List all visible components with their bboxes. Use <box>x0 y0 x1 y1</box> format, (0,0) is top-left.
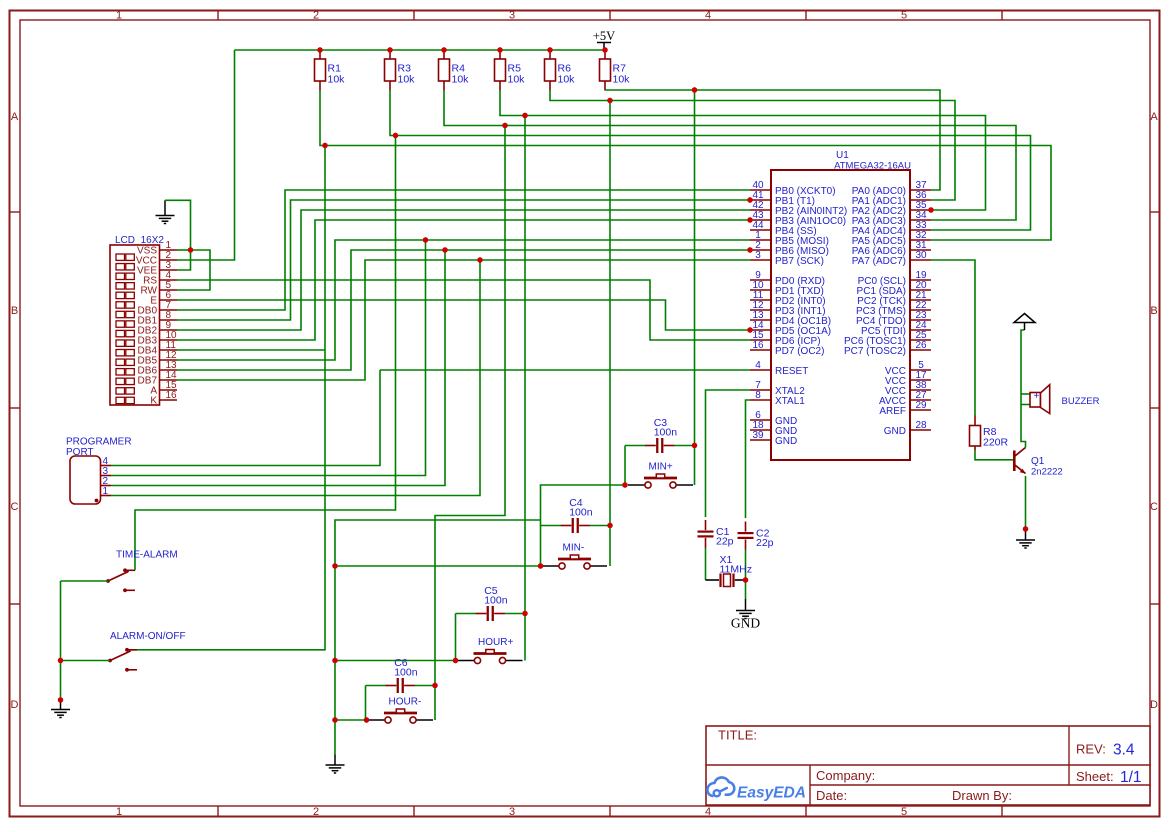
svg-text:10k: 10k <box>328 74 346 86</box>
junction emitter/ground <box>1023 526 1028 531</box>
push button MIN+ <box>628 462 693 489</box>
LCD pin 11 DB4 <box>138 340 177 357</box>
junction C3 right <box>692 443 697 448</box>
svg-text:100n: 100n <box>484 595 508 607</box>
wire R1 net: descender to ALARM-ON/OFF <box>131 146 326 650</box>
wire button common row MIN- <box>335 565 541 567</box>
wire RS to PD6 <box>177 280 750 340</box>
svg-text:K: K <box>150 396 157 407</box>
port pin 4 <box>101 456 112 467</box>
U1 pin 17 VCC <box>885 370 931 387</box>
svg-text:AREF: AREF <box>879 406 906 417</box>
U1 pin 12 PD3 (INT1) <box>750 300 826 317</box>
svg-text:D: D <box>1150 699 1158 711</box>
U1 pin 28 GND <box>884 420 931 437</box>
U1 pin 5 VCC <box>885 360 931 377</box>
LCD pad <box>116 321 125 327</box>
junction common/MIN- <box>332 563 337 568</box>
svg-text:GND: GND <box>775 436 797 447</box>
wire DB4 <box>177 349 325 351</box>
junction R1 bus <box>322 143 327 148</box>
port pin 1 <box>101 486 112 497</box>
svg-text:10k: 10k <box>452 74 470 86</box>
U1 pin 3 PB7 (SCK) <box>750 250 824 267</box>
push button MIN- <box>542 543 607 570</box>
U1 pin 37 PA0 (ADC0) <box>852 180 931 197</box>
junction R4 bus <box>502 123 507 128</box>
svg-text:EasyEDA: EasyEDA <box>737 785 806 802</box>
svg-text:2: 2 <box>313 806 319 818</box>
connector LCD_16X2 <box>110 235 164 405</box>
junction on +5V bus <box>387 47 392 52</box>
svg-text:D: D <box>11 699 19 711</box>
U1 pin 14 PD5 (OC1A) <box>750 320 831 337</box>
junction common/HOUR- <box>332 717 337 722</box>
resistor R1 <box>315 50 346 91</box>
junction VSS <box>188 247 193 252</box>
ground (switches) <box>51 700 70 718</box>
svg-text:PA7 (ADC7): PA7 (ADC7) <box>852 256 906 267</box>
junction C6 left/HOUR- <box>364 717 369 722</box>
svg-text:C: C <box>11 501 19 513</box>
svg-text:4: 4 <box>705 806 711 818</box>
LCD pin 9 DB2 <box>138 320 177 337</box>
LCD pin 6 E <box>150 290 177 307</box>
LCD pin 10 DB3 <box>138 330 178 347</box>
wire XTAL1 to C2 <box>746 400 751 518</box>
junction at U1 left pin <box>747 217 752 222</box>
port pin 3 <box>101 466 112 477</box>
LCD pin 8 DB1 <box>138 310 177 327</box>
capacitor C5 100n <box>476 585 508 621</box>
svg-text:PROGRAMER: PROGRAMER <box>66 437 132 448</box>
svg-text:Drawn By:: Drawn By: <box>952 788 1012 803</box>
svg-text:3: 3 <box>509 806 515 818</box>
svg-text:ATMEGA32-16AU: ATMEGA32-16AU <box>834 161 911 172</box>
LCD pin 7 DB0 <box>138 300 177 317</box>
LCD pad <box>116 359 125 365</box>
connector PROGRAMER PORT <box>66 437 132 505</box>
junction on +5V bus <box>602 47 607 52</box>
junction at U1 left pin <box>747 247 752 252</box>
LCD pin 2 VCC <box>136 250 177 267</box>
U1 pin 13 PD4 (OC1B) <box>750 310 831 327</box>
wire DB0 to PB0 <box>177 190 750 310</box>
junction dots overlay <box>58 47 1028 722</box>
U1 pin 15 PD6 (ICP) <box>750 330 821 347</box>
svg-text:1/1: 1/1 <box>1120 769 1142 786</box>
wire VCC riser to LCD <box>177 50 235 260</box>
svg-text:30: 30 <box>915 250 927 261</box>
wire button common vertical <box>335 520 541 755</box>
svg-text:3: 3 <box>755 250 761 261</box>
svg-text:2: 2 <box>313 10 319 22</box>
wire R1 net: PA5 bus <box>320 91 1051 241</box>
wire R3 net: descender to TIME-ALARM <box>135 136 396 571</box>
svg-text:B: B <box>1150 305 1157 317</box>
LCD pin 4 RS <box>143 270 177 287</box>
U1 pin 30 PA7 (ADC7) <box>852 250 931 267</box>
U1 pin 31 PA6 (ADC6) <box>852 240 931 257</box>
wire port pin2 to PB6 <box>111 250 445 486</box>
LCD pin 1 VSS <box>137 240 177 257</box>
svg-text:+: + <box>1034 391 1040 402</box>
wire DB6 to PB6 <box>177 250 750 370</box>
U1 pin 40 PB0 (XCKT0) <box>750 180 836 197</box>
svg-text:REV:: REV: <box>1076 742 1106 757</box>
wire VEE to ground net <box>177 250 191 270</box>
svg-text:4: 4 <box>705 10 711 22</box>
LCD pad <box>116 292 125 298</box>
capacitor C4 100n <box>561 497 593 533</box>
resistor R8 220R <box>970 416 1009 451</box>
U1 pin 10 PD1 (TXD) <box>750 280 824 297</box>
capacitor C6 100n <box>386 657 418 693</box>
LCD pad <box>116 283 125 289</box>
transistor Q1 2n2222 <box>1014 448 1062 478</box>
U1 pin 25 PC6 (TOSC1) <box>844 330 931 347</box>
wire E to PD5 <box>177 300 750 330</box>
svg-text:TITLE:: TITLE: <box>718 728 757 743</box>
junction MIN+ left <box>622 482 627 487</box>
LCD pin 13 DB6 <box>138 360 178 377</box>
U1 pin 9 PD0 (RXD) <box>750 270 825 287</box>
svg-text:28: 28 <box>915 420 927 431</box>
junction at U1 pin 35 <box>928 207 933 212</box>
U1 pin 38 VCC <box>885 380 931 397</box>
U1 pin 42 PB2 (AIN0INT2) <box>750 200 847 217</box>
LCD pad <box>116 311 125 317</box>
wire port pin3 to PB5 <box>111 240 426 476</box>
LCD pad <box>116 369 125 375</box>
wire RESET row <box>380 369 750 371</box>
LCD pin 3 VEE <box>137 260 177 277</box>
svg-text:8: 8 <box>755 390 761 401</box>
junction R5 bus <box>522 113 527 118</box>
U1 pin 20 PC1 (SDA) <box>857 280 931 297</box>
wire R4 net: PA3 bus <box>444 91 1016 221</box>
svg-text:29: 29 <box>915 400 927 411</box>
U1 pin 39 GND <box>750 430 797 447</box>
junction R3 bus <box>393 133 398 138</box>
wire DB7 to PB7 <box>177 260 750 380</box>
wire DB3 to PB3 <box>177 220 750 340</box>
junction X1 right <box>743 577 748 582</box>
wire R3 net: PA4 bus <box>390 91 1031 231</box>
svg-text:B: B <box>11 305 18 317</box>
U1 pin 4 RESET <box>750 360 808 377</box>
U1 pin 8 XTAL1 <box>750 390 805 407</box>
wire PA7 to R8 <box>931 260 975 416</box>
U1 pin 24 PC5 (TDI) <box>861 320 931 337</box>
U1 pin 34 PA3 (ADC3) <box>852 210 931 227</box>
LCD pad <box>116 350 125 356</box>
svg-text:22p: 22p <box>716 536 734 548</box>
svg-text:A: A <box>11 111 19 123</box>
junction on +5V bus <box>497 47 502 52</box>
ground (Q1 emitter) <box>1016 529 1035 548</box>
crystal X1 11MHz <box>720 554 752 587</box>
svg-text:ALARM-ON/OFF: ALARM-ON/OFF <box>110 631 186 642</box>
LCD pin 5 RW <box>141 280 177 297</box>
junction R6 bus <box>607 98 612 103</box>
svg-text:RESET: RESET <box>775 366 808 377</box>
wire ALARM-ON/OFF common <box>61 660 111 662</box>
svg-text:220R: 220R <box>983 437 1009 449</box>
junction C4 right <box>607 523 612 528</box>
svg-text:10k: 10k <box>613 74 631 86</box>
svg-text:MIN+: MIN+ <box>649 462 673 473</box>
U1 pin 43 PB3 (AIN1OC0) <box>750 210 846 227</box>
wire R7 net: PA0 bus <box>605 90 940 190</box>
LCD pad <box>116 254 125 260</box>
resistor R6 <box>545 50 576 91</box>
LCD pad <box>116 388 125 394</box>
wire R4 net: descender to HOUR- riser <box>435 126 505 721</box>
wire switch ground rail <box>60 581 62 700</box>
junction rail/ground <box>58 697 63 702</box>
ground GND flag under X1 <box>736 599 755 619</box>
LCD pad <box>116 340 125 346</box>
U1 pin 18 GND <box>750 420 797 437</box>
svg-text:5: 5 <box>901 10 907 22</box>
junction on +5V bus <box>547 47 552 52</box>
buzzer <box>1021 385 1100 414</box>
svg-text:HOUR+: HOUR+ <box>478 637 513 648</box>
svg-text:GND: GND <box>731 616 760 631</box>
U1 pin 6 GND <box>750 410 797 427</box>
wire C1 to X1 <box>705 548 707 580</box>
U1 pin 33 PA4 (ADC4) <box>852 220 931 237</box>
svg-text:Q1: Q1 <box>1031 456 1045 467</box>
+5V power flag <box>593 29 615 50</box>
LCD pad <box>116 273 125 279</box>
svg-text:+5V: +5V <box>593 29 615 43</box>
wire button common row HOUR+ <box>335 660 456 662</box>
svg-text:HOUR-: HOUR- <box>389 697 422 708</box>
wire port pin1 to PB7 <box>111 260 480 496</box>
svg-text:PB7 (SCK): PB7 (SCK) <box>775 256 824 267</box>
svg-text:Date:: Date: <box>816 788 847 803</box>
LCD pad <box>116 330 125 336</box>
resistor R3 <box>385 50 416 91</box>
svg-text:A: A <box>1150 111 1158 123</box>
junction MIN- left <box>538 563 543 568</box>
wire R7 net: descender to MIN+ <box>694 90 696 485</box>
wire R5 net: PA2 bus <box>500 91 986 211</box>
U1 pin 29 AREF <box>879 400 931 417</box>
wire port pin4 to RESET <box>111 370 380 466</box>
svg-text:1: 1 <box>116 806 122 818</box>
capacitor C2 22p <box>738 522 774 550</box>
wire VSS to ground <box>177 249 191 251</box>
svg-text:C: C <box>1150 501 1158 513</box>
junction C5 right <box>522 611 527 616</box>
IC U1 ATMEGA32-16AU <box>771 150 911 460</box>
svg-text:MIN-: MIN- <box>563 543 585 554</box>
svg-text:5: 5 <box>901 806 907 818</box>
wire R6 net: descender to MIN- <box>609 101 611 567</box>
svg-text:16: 16 <box>166 390 178 401</box>
ground (LCD VSS) <box>156 200 175 223</box>
port pin 2 <box>101 476 112 487</box>
svg-text:100n: 100n <box>569 507 593 519</box>
U1 pin 32 PA5 (ADC5) <box>852 230 931 247</box>
title block <box>706 726 1150 805</box>
U1 pin 44 PB4 (SS) <box>750 220 817 237</box>
resistor R5 <box>495 50 526 91</box>
wire TIME-ALARM common <box>61 580 109 582</box>
U1 pin 7 XTAL2 <box>750 380 805 397</box>
wire MIN+ left to C4 riser <box>541 485 626 566</box>
svg-text:3: 3 <box>509 10 515 22</box>
wire button common row HOUR- <box>335 719 367 721</box>
junction common/HOUR+ <box>332 658 337 663</box>
wire RW to ground net <box>177 250 210 290</box>
LCD pad <box>116 378 125 384</box>
svg-text:22p: 22p <box>756 537 774 549</box>
svg-text:100n: 100n <box>654 427 678 439</box>
LCD pad <box>116 302 125 308</box>
svg-text:XTAL1: XTAL1 <box>775 396 805 407</box>
svg-text:1: 1 <box>116 10 122 22</box>
wire DB2 to PB2 <box>177 210 750 330</box>
wire DB5 to PB5 <box>177 240 750 360</box>
svg-text:10k: 10k <box>558 74 576 86</box>
svg-text:Company:: Company: <box>816 768 875 783</box>
LCD pin 16 K <box>150 390 177 407</box>
wire DB1 to PB1 <box>177 200 750 320</box>
junction at U1 left pin <box>747 327 752 332</box>
U1 pin 26 PC7 (TOSC2) <box>844 340 931 357</box>
junction on +5V bus <box>317 47 322 52</box>
resistor R7 <box>600 50 631 91</box>
EasyEDA logo <box>707 777 806 801</box>
U1 pin 2 PB6 (MISO) <box>750 240 829 257</box>
power arrow flag <box>1014 314 1035 331</box>
junction at U1 left pin <box>747 197 752 202</box>
junction on +5V bus <box>441 47 446 52</box>
svg-text:16: 16 <box>752 340 764 351</box>
U1 pin 23 PC4 (TDO) <box>856 310 931 327</box>
LCD pad <box>116 264 125 270</box>
U1 pin 22 PC3 (TMS) <box>856 300 931 317</box>
resistor R4 <box>439 50 470 91</box>
U1 pin 1 PB5 (MOSI) <box>750 230 829 247</box>
wire C6 left riser <box>365 686 367 721</box>
capacitor C3 100n <box>645 417 677 453</box>
U1 pin 41 PB1 (T1) <box>750 190 815 207</box>
wire R6 net: PA1 bus <box>550 91 955 201</box>
LCD pin 14 DB7 <box>138 370 178 387</box>
push button HOUR- <box>368 697 433 724</box>
wire C2 to X1/GND <box>745 550 747 600</box>
svg-text:10k: 10k <box>508 74 526 86</box>
svg-text:11MHz: 11MHz <box>720 564 752 576</box>
U1 pin 19 PC0 (SCL) <box>858 270 931 287</box>
U1 pin 35 PA2 (ADC2) <box>852 200 931 217</box>
LCD pin 12 DB5 <box>138 350 178 367</box>
wire +5V bus <box>235 49 606 51</box>
U1 pin 21 PC2 (TCK) <box>857 290 931 307</box>
junction R7 bus <box>692 87 697 92</box>
LCD pad <box>116 397 125 403</box>
svg-text:2n2222: 2n2222 <box>1031 467 1063 478</box>
svg-text:BUZZER: BUZZER <box>1062 396 1100 407</box>
LCD pin 15 A <box>150 380 177 397</box>
svg-text:TIME-ALARM: TIME-ALARM <box>116 550 178 561</box>
svg-text:U1: U1 <box>836 150 849 161</box>
push button HOUR+ <box>458 637 523 664</box>
U1 pin 27 AVCC <box>879 390 931 407</box>
wire XTAL2 to C1 <box>706 390 751 517</box>
junction C5 left/HOUR+ <box>453 658 458 663</box>
wire Q1 emitter to ground <box>1025 476 1027 529</box>
wire R8 to Q1 base <box>975 450 1013 460</box>
ground (buttons) <box>326 755 345 774</box>
wire C5 left riser <box>455 614 457 661</box>
junction PB5 row <box>423 237 428 242</box>
svg-text:PD7 (OC2): PD7 (OC2) <box>775 346 824 357</box>
capacitor C1 22p <box>698 520 734 548</box>
junction PB7 row <box>477 257 482 262</box>
U1 pin 16 PD7 (OC2) <box>750 340 824 357</box>
svg-text:3.4: 3.4 <box>1113 742 1135 759</box>
svg-text:4: 4 <box>755 360 761 371</box>
svg-text:PC7 (TOSC2): PC7 (TOSC2) <box>844 346 906 357</box>
svg-text:1: 1 <box>103 486 109 497</box>
wire C3/MIN+ left riser <box>624 446 626 486</box>
U1 pin 36 PA1 (ADC1) <box>852 190 931 207</box>
svg-text:26: 26 <box>915 340 927 351</box>
svg-text:10k: 10k <box>398 74 416 86</box>
wire R5 net: descender to HOUR+ <box>524 116 526 661</box>
svg-text:Sheet:: Sheet: <box>1076 769 1114 784</box>
svg-text:100n: 100n <box>394 667 418 679</box>
junction rail/ALARM common <box>58 658 63 663</box>
wire Q1 collector to buzzer <box>1021 330 1026 448</box>
U1 pin 11 PD2 (INT0) <box>750 290 826 307</box>
svg-text:GND: GND <box>884 426 906 437</box>
svg-text:39: 39 <box>752 430 764 441</box>
junction C6 right <box>432 683 437 688</box>
junction PB6 row <box>442 247 447 252</box>
